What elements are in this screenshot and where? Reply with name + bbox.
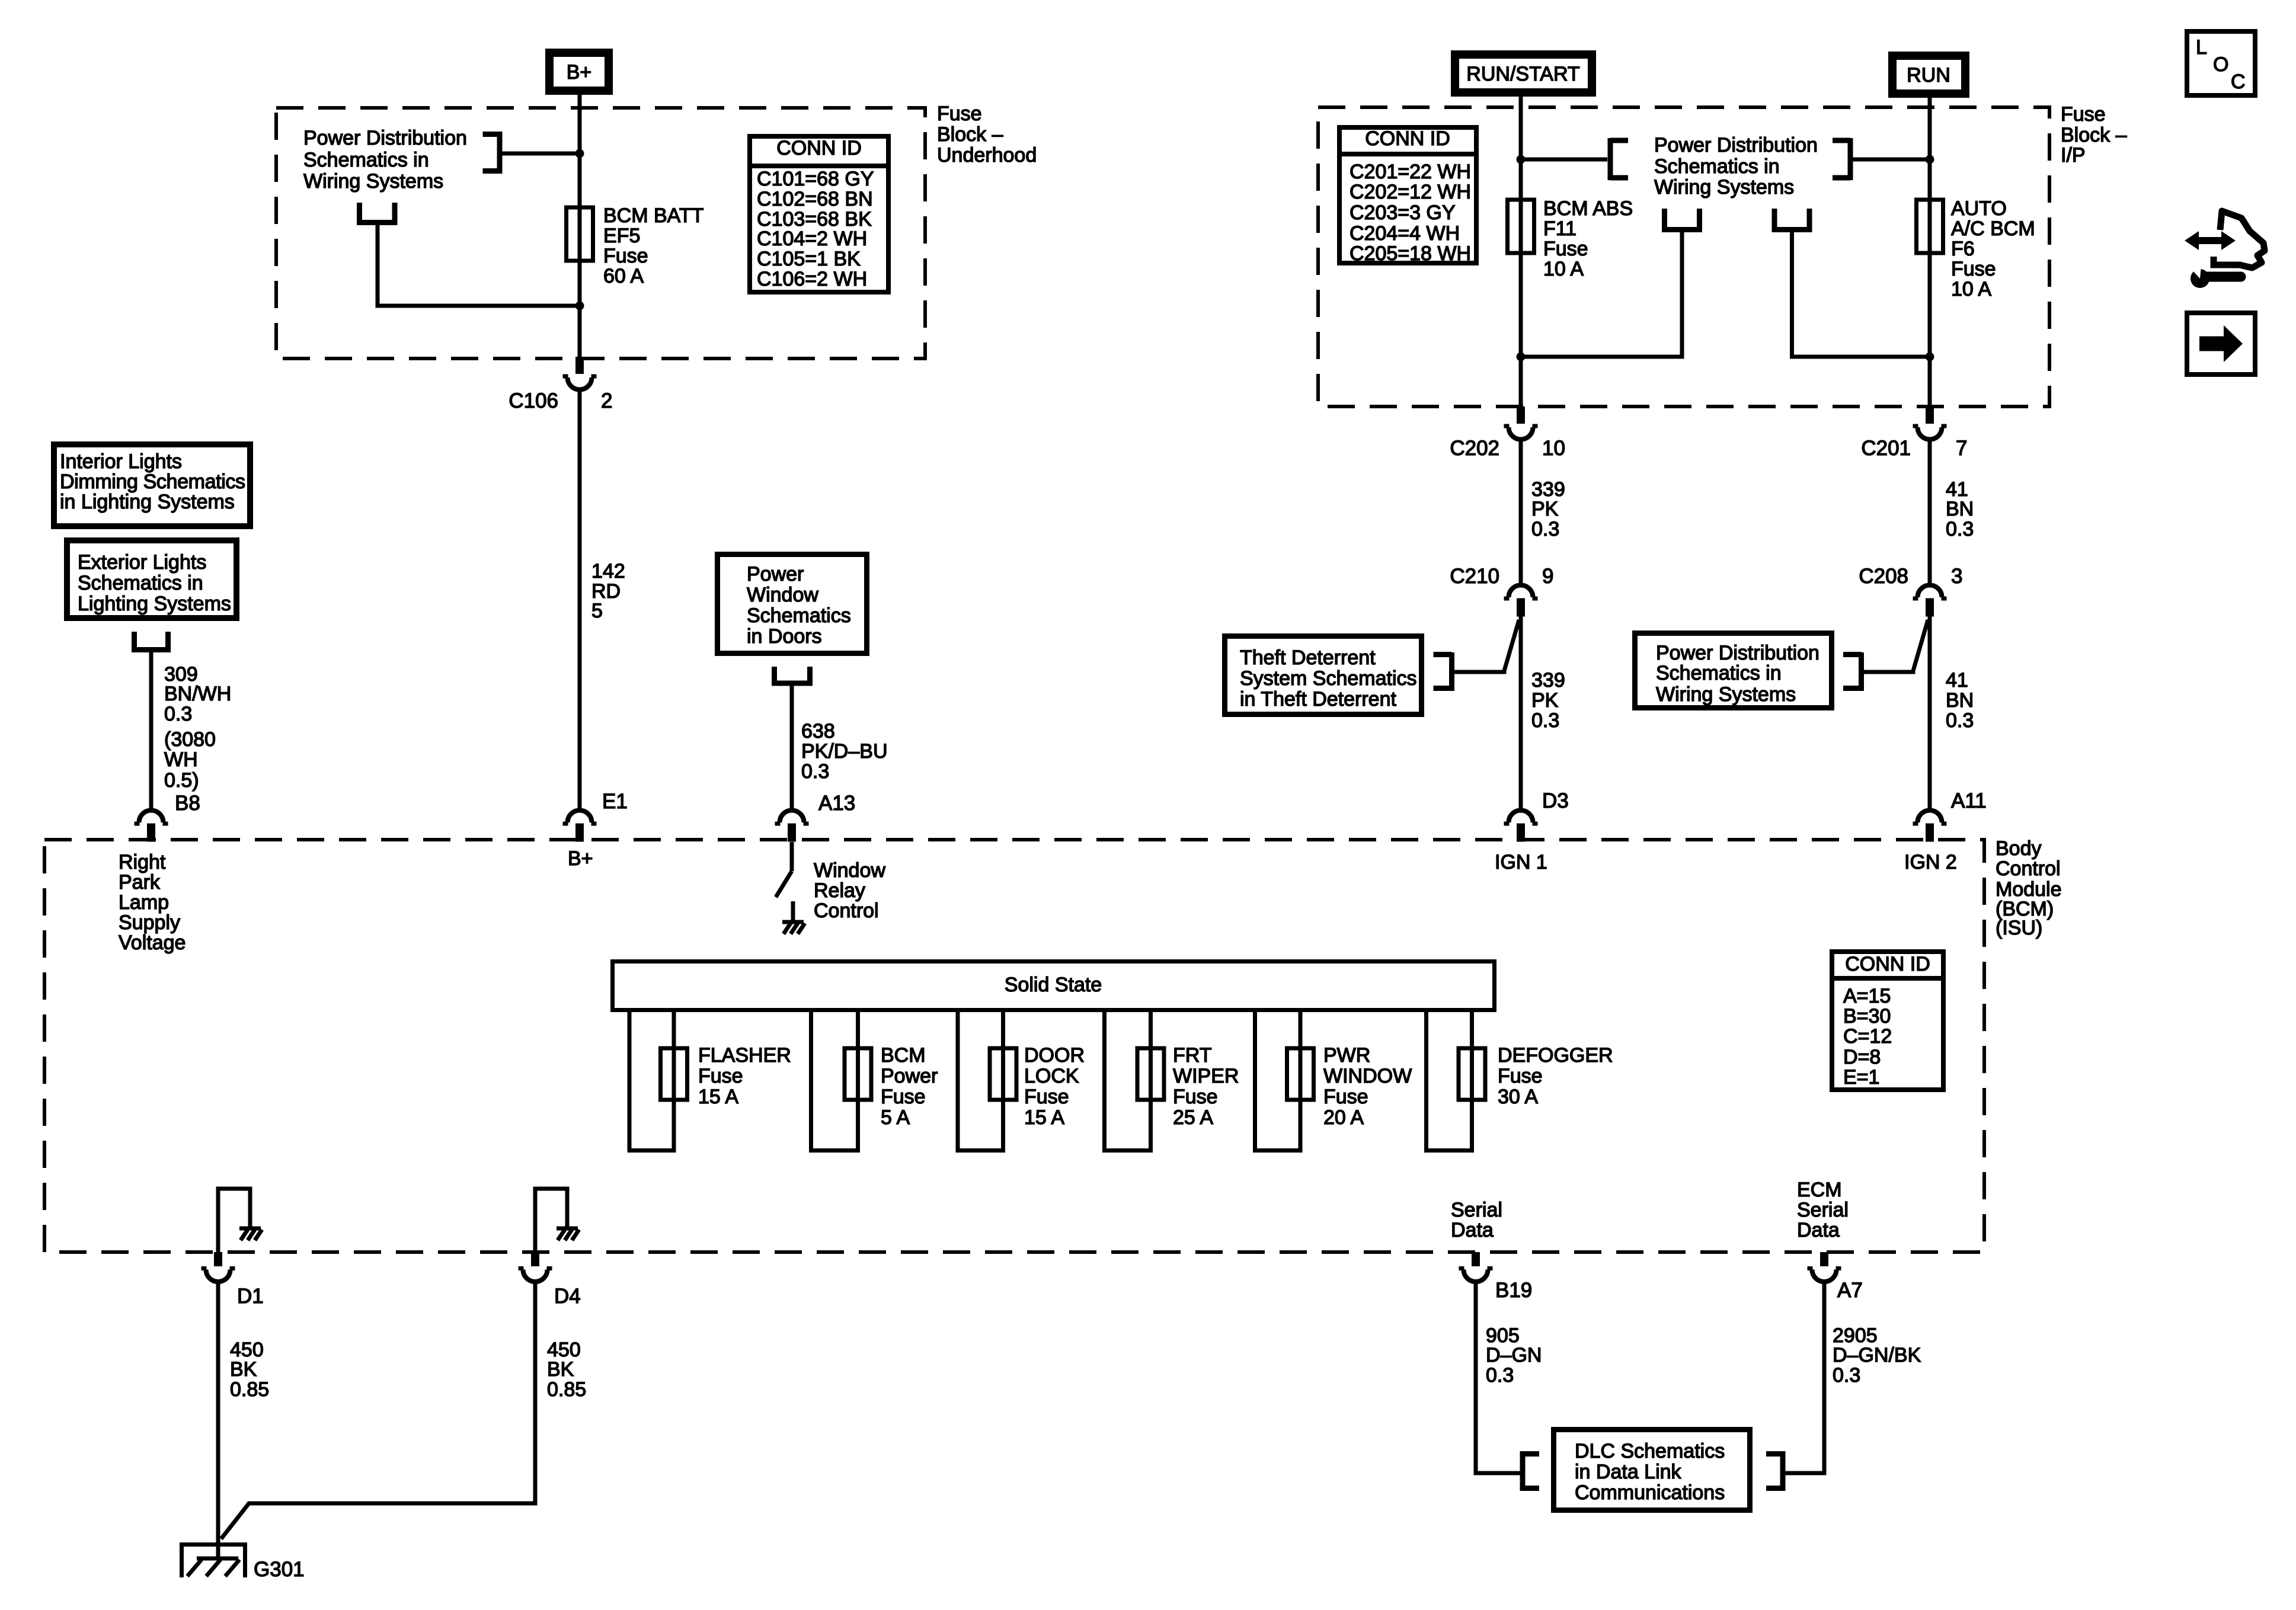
svg-text:Fuse: Fuse [1323, 1086, 1368, 1108]
svg-text:Fuse: Fuse [1173, 1086, 1218, 1108]
terminal RUN/START [1455, 55, 1592, 92]
wire RUN/START feed down through F11 to C202 [1519, 97, 1523, 406]
junction RUN tap [1926, 155, 1934, 164]
svg-text:D4: D4 [554, 1285, 581, 1308]
svg-text:15 A: 15 A [1024, 1106, 1064, 1129]
svg-text:10: 10 [1542, 437, 1565, 460]
svg-text:2: 2 [601, 389, 612, 412]
svg-text:B19: B19 [1495, 1279, 1532, 1302]
fuse F6 AUTO A/C BCM [1917, 200, 1943, 253]
svg-text:G301: G301 [254, 1558, 305, 1581]
label 41 BN 0.3 upper [1946, 478, 1974, 540]
svg-text:CONN ID: CONN ID [1845, 953, 1930, 975]
svg-text:0.3: 0.3 [1946, 518, 1974, 540]
wire 41 BN upper [1928, 440, 1932, 585]
svg-text:Fuse: Fuse [603, 245, 648, 267]
label 905 D-GN 0.3 [1486, 1324, 1542, 1387]
svg-text:ECM: ECM [1797, 1179, 1842, 1201]
svg-text:142: 142 [591, 560, 625, 582]
svg-text:Control: Control [814, 900, 879, 922]
svg-text:Block –: Block – [937, 123, 1003, 146]
label Fuse Block - Underhood [937, 103, 1037, 167]
svg-text:C104=2 WH: C104=2 WH [757, 228, 867, 250]
wire 2905 D-GN/BK to DLC [1785, 1282, 1824, 1473]
svg-text:AUTO: AUTO [1951, 197, 2007, 220]
svg-text:D=8: D=8 [1843, 1046, 1881, 1068]
internal ground hook D1 [218, 1189, 262, 1252]
wire 450 BK from D1 to G301 [216, 1282, 220, 1557]
reference bracket left of DLC box [1523, 1451, 1539, 1491]
svg-text:C101=68 GY: C101=68 GY [757, 168, 874, 190]
off-page bracket (right, below I/P label) [1772, 209, 1812, 230]
svg-text:Schematics: Schematics [747, 604, 851, 627]
svg-text:A=15: A=15 [1843, 985, 1891, 1007]
fuse F11 BCM ABS [1508, 200, 1534, 253]
svg-text:0.3: 0.3 [1833, 1364, 1860, 1387]
svg-text:3: 3 [1951, 565, 1962, 588]
svg-text:WIPER: WIPER [1173, 1065, 1239, 1087]
connector C210 pin 9 [1450, 565, 1553, 617]
svg-text:9: 9 [1542, 565, 1553, 588]
svg-text:7: 7 [1956, 437, 1967, 460]
wire bracket to RUN wire [1852, 158, 1930, 162]
connector A11 [1913, 789, 1987, 842]
svg-text:FLASHER: FLASHER [698, 1044, 791, 1067]
connector A7 [1808, 1252, 1863, 1302]
svg-text:DLC Schematics: DLC Schematics [1575, 1440, 1725, 1462]
connector C202 pin 10 [1450, 406, 1565, 460]
svg-text:BN: BN [1946, 689, 1974, 712]
svg-text:638: 638 [801, 720, 835, 742]
off-page bracket (left, below I/P label) [1662, 209, 1702, 230]
icon forward arrow [2187, 313, 2255, 375]
svg-text:C201: C201 [1861, 437, 1911, 460]
svg-text:25 A: 25 A [1173, 1106, 1213, 1129]
wire branch to power distribution bracket [1863, 620, 1928, 672]
internal ground hook D4 [535, 1189, 579, 1252]
svg-text:0.3: 0.3 [801, 760, 829, 783]
svg-text:BCM: BCM [881, 1044, 926, 1067]
svg-text:F11: F11 [1543, 217, 1576, 240]
wire RUN feed down through F6 to C201 [1928, 98, 1932, 406]
svg-text:Schematics in: Schematics in [78, 572, 203, 594]
svg-text:0.85: 0.85 [230, 1378, 269, 1401]
label 2905 D-GN/BK 0.3 [1833, 1324, 1921, 1387]
connector D3 [1504, 789, 1569, 842]
svg-text:O: O [2213, 53, 2228, 76]
svg-text:Lighting Systems: Lighting Systems [78, 593, 231, 615]
svg-text:DOOR: DOOR [1024, 1044, 1085, 1067]
pin label Window Relay Control [814, 859, 885, 922]
terminal RUN [1892, 56, 1965, 94]
svg-text:C105=1 BK: C105=1 BK [757, 248, 861, 270]
svg-text:C102=68 BN: C102=68 BN [757, 188, 873, 210]
svg-text:Data: Data [1451, 1219, 1494, 1241]
wire tap to reference bracket [501, 152, 580, 156]
svg-text:in Theft Deterrent: in Theft Deterrent [1240, 688, 1397, 710]
svg-text:Park: Park [119, 871, 161, 894]
connector B8 [135, 792, 200, 842]
wire 638 PK/D-BU [790, 686, 794, 809]
wire 905 D-GN to DLC [1476, 1282, 1520, 1473]
svg-text:60 A: 60 A [603, 265, 644, 287]
switch contact stub and ground [782, 901, 805, 934]
svg-text:C106: C106 [509, 389, 558, 412]
svg-text:CONN ID: CONN ID [1365, 127, 1450, 150]
wire 309 BN/WH [149, 651, 154, 809]
label Fuse Block - I/P [2061, 103, 2127, 167]
wire tap to reference bracket (left) [1521, 158, 1607, 162]
fuse unit FLASHER [629, 1012, 791, 1151]
junction F11 output [1517, 353, 1526, 361]
junction fuse output [575, 302, 584, 311]
svg-text:5 A: 5 A [881, 1106, 910, 1129]
junction B+ tap [575, 149, 584, 158]
label box Theft Deterrent System Schematics in Theft Deterrent [1225, 636, 1422, 715]
svg-text:A/C BCM: A/C BCM [1951, 217, 2035, 240]
svg-text:C210: C210 [1450, 565, 1499, 588]
svg-text:Relay: Relay [814, 879, 865, 902]
fuse unit DOOR LOCK [958, 1012, 1085, 1151]
reference bracket right of Power Distribution label [1833, 138, 1850, 180]
svg-text:PK: PK [1531, 689, 1559, 712]
svg-text:RUN/START: RUN/START [1466, 63, 1579, 85]
svg-text:Fuse: Fuse [1024, 1086, 1069, 1108]
svg-text:Right: Right [119, 851, 166, 873]
svg-text:Schematics in: Schematics in [303, 149, 429, 171]
svg-text:PK/D–BU: PK/D–BU [801, 740, 888, 763]
wire 450 BK from D4 to G301 [221, 1282, 535, 1539]
svg-text:B8: B8 [175, 792, 200, 815]
label box Interior Lights Dimming Schematics in Lighting Systems [54, 444, 250, 526]
svg-text:LOCK: LOCK [1024, 1065, 1079, 1087]
off-page bracket below Exterior Lights box [132, 632, 171, 650]
svg-text:15 A: 15 A [698, 1086, 738, 1108]
svg-text:in Doors: in Doors [747, 625, 822, 648]
reference bracket to Power Distribution label [483, 132, 500, 174]
fuse block I/P dashed box [1318, 107, 2049, 406]
svg-text:Control: Control [1996, 857, 2061, 880]
wire bracket to F6 output [1792, 232, 1926, 357]
svg-text:DEFOGGER: DEFOGGER [1498, 1044, 1613, 1067]
svg-text:B=30: B=30 [1843, 1005, 1891, 1028]
wire bracket to fuse output [378, 222, 575, 306]
svg-text:Power: Power [747, 563, 804, 585]
svg-text:Schematics in: Schematics in [1654, 155, 1780, 178]
wire 339 PK upper [1519, 440, 1523, 585]
svg-text:CONN ID: CONN ID [776, 137, 862, 159]
connector A13 [775, 792, 856, 842]
solid state bar [613, 962, 1495, 1010]
terminal B+ [549, 53, 609, 91]
svg-text:C106=2 WH: C106=2 WH [757, 268, 867, 290]
svg-text:Window: Window [814, 859, 885, 882]
connector C201 pin 7 [1861, 406, 1967, 460]
svg-text:D–GN: D–GN [1486, 1344, 1542, 1366]
svg-text:WINDOW: WINDOW [1323, 1065, 1412, 1087]
label 339 PK 0.3 upper [1531, 478, 1565, 540]
connector D1 [202, 1252, 264, 1308]
CONN ID table underhood [750, 136, 888, 292]
label Power Distribution Schematics in Wiring Systems (underhood) [303, 127, 467, 193]
fuse unit PWR WINDOW [1255, 1012, 1412, 1151]
svg-text:30 A: 30 A [1498, 1086, 1538, 1108]
reference bracket right of Theft Deterrent box [1434, 652, 1452, 691]
svg-text:Solid State: Solid State [1005, 974, 1102, 996]
svg-text:Fuse: Fuse [1543, 238, 1588, 260]
fuse unit BCM Power [811, 1012, 938, 1151]
svg-text:Body: Body [1996, 837, 2042, 860]
svg-text:A11: A11 [1951, 789, 1987, 812]
wire B+ feed down through EF5 to C106 [578, 95, 582, 357]
ground G301 [182, 1545, 245, 1578]
svg-text:F6: F6 [1951, 238, 1975, 260]
svg-text:5: 5 [591, 600, 603, 622]
fuse unit FRT WIPER [1105, 1012, 1239, 1151]
svg-text:Exterior Lights: Exterior Lights [78, 551, 206, 574]
svg-text:D1: D1 [237, 1285, 264, 1308]
svg-text:Voltage: Voltage [119, 932, 186, 954]
label box Exterior Lights Schematics in Lighting Systems [67, 540, 236, 618]
svg-text:C=12: C=12 [1843, 1025, 1892, 1048]
label 638 PK/D-BU 0.3 [801, 720, 888, 783]
label Power Distribution Schematics in Wiring Systems (I/P) [1654, 134, 1818, 199]
label 339 PK 0.3 lower [1531, 669, 1565, 732]
svg-text:Dimming Schematics: Dimming Schematics [60, 470, 245, 493]
svg-text:0.3: 0.3 [1486, 1364, 1514, 1387]
fuse block underhood dashed box [276, 108, 925, 359]
svg-text:Supply: Supply [119, 911, 180, 934]
icon LOC [2187, 31, 2255, 95]
svg-text:C: C [2231, 71, 2246, 93]
svg-text:D3: D3 [1542, 789, 1569, 812]
wire 142 RD [578, 390, 582, 809]
svg-text:10 A: 10 A [1951, 278, 1991, 300]
svg-text:Fuse: Fuse [937, 103, 982, 125]
label 142 RD 5 [591, 560, 625, 622]
svg-text:Window: Window [747, 584, 818, 606]
svg-text:IGN 2: IGN 2 [1904, 851, 1957, 873]
window relay switch [776, 842, 792, 897]
svg-text:C202: C202 [1450, 437, 1499, 460]
svg-text:Lamp: Lamp [119, 891, 169, 914]
svg-text:B+: B+ [567, 61, 592, 84]
svg-text:C202=12 WH: C202=12 WH [1350, 181, 1471, 203]
svg-text:I/P: I/P [2061, 144, 2086, 167]
svg-text:Data: Data [1797, 1219, 1840, 1241]
junction F6 output [1926, 353, 1934, 361]
off-page bracket below label (underhood) [357, 203, 398, 223]
svg-text:PWR: PWR [1323, 1044, 1370, 1067]
svg-text:Wiring Systems: Wiring Systems [1656, 683, 1796, 706]
svg-text:D–GN/BK: D–GN/BK [1833, 1344, 1921, 1366]
svg-text:Theft Deterrent: Theft Deterrent [1240, 646, 1376, 669]
body control module dashed box [44, 840, 1984, 1252]
svg-text:(ISU): (ISU) [1996, 917, 2042, 939]
junction RUN/START tap [1517, 155, 1526, 164]
svg-text:Block –: Block – [2061, 124, 2127, 146]
svg-text:Interior Lights: Interior Lights [60, 450, 182, 473]
svg-text:C204=4 WH: C204=4 WH [1350, 222, 1460, 245]
svg-text:E1: E1 [602, 790, 628, 813]
CONN ID table I/P [1339, 127, 1476, 265]
connector B19 [1459, 1252, 1533, 1302]
svg-text:41: 41 [1946, 669, 1968, 692]
svg-text:0.85: 0.85 [547, 1378, 586, 1401]
svg-text:C208: C208 [1859, 565, 1908, 588]
svg-text:Serial: Serial [1797, 1199, 1849, 1221]
label 450 BK 0.85 (D1) [230, 1339, 269, 1401]
svg-text:C205=18 WH: C205=18 WH [1350, 242, 1471, 265]
label Body Control Module (BCM) (ISU) [1996, 837, 2062, 939]
connector D4 [519, 1252, 581, 1308]
pin label Right Park Lamp Supply Voltage [119, 851, 186, 954]
svg-text:PK: PK [1531, 498, 1559, 520]
label box Power Distribution Schematics in Wiring Systems (boxed) [1635, 633, 1832, 708]
off-page bracket below Power Window box [772, 667, 813, 683]
svg-text:Power Distribution: Power Distribution [1656, 642, 1819, 664]
svg-text:Communications: Communications [1575, 1481, 1725, 1504]
reference bracket right of Power Distribution box [1843, 652, 1862, 691]
svg-text:20 A: 20 A [1323, 1106, 1364, 1129]
icon service reference (double arrow, outline, wrench) [2185, 211, 2265, 288]
svg-text:A7: A7 [1837, 1279, 1863, 1302]
svg-text:L: L [2196, 36, 2207, 59]
svg-text:FRT: FRT [1173, 1044, 1211, 1067]
fuse unit DEFOGGER [1427, 1012, 1613, 1151]
svg-text:in Lighting Systems: in Lighting Systems [60, 491, 235, 513]
svg-text:IGN 1: IGN 1 [1495, 851, 1547, 873]
connector C208 pin 3 [1859, 565, 1962, 617]
svg-text:339: 339 [1531, 669, 1565, 692]
label 309 BN/WH 0.3 (3080 WH 0.5) [164, 663, 231, 792]
svg-text:0.3: 0.3 [164, 703, 192, 725]
svg-text:BN/WH: BN/WH [164, 683, 231, 705]
svg-text:C203=3 GY: C203=3 GY [1350, 201, 1456, 224]
svg-text:Wiring Systems: Wiring Systems [1654, 176, 1794, 199]
wire 339 PK lower [1519, 616, 1523, 809]
svg-text:RUN: RUN [1907, 64, 1950, 87]
svg-text:0.3: 0.3 [1946, 709, 1974, 732]
svg-text:Fuse: Fuse [1951, 258, 1996, 280]
svg-text:Power Distribution: Power Distribution [303, 127, 467, 149]
wire branch to theft deterrent bracket [1454, 620, 1519, 672]
svg-text:Schematics in: Schematics in [1656, 662, 1782, 684]
svg-text:0.3: 0.3 [1531, 518, 1559, 540]
svg-text:Underhood: Underhood [937, 144, 1037, 167]
svg-text:C201=22 WH: C201=22 WH [1350, 161, 1471, 183]
svg-text:Fuse: Fuse [881, 1086, 926, 1108]
pin label Serial Data [1451, 1199, 1502, 1241]
svg-text:(3080: (3080 [164, 728, 216, 751]
svg-text:E=1: E=1 [1843, 1066, 1879, 1089]
label 450 BK 0.85 (D4) [547, 1339, 586, 1401]
svg-text:Power: Power [881, 1065, 938, 1087]
svg-text:Power Distribution: Power Distribution [1654, 134, 1818, 156]
label BCM ABS F11 Fuse 10 A [1543, 197, 1633, 280]
svg-text:Fuse: Fuse [2061, 103, 2106, 126]
connector C106 pin 2 [509, 357, 612, 412]
svg-text:WH: WH [164, 748, 198, 771]
wire bracket to F11 output [1525, 232, 1682, 357]
svg-text:B+: B+ [568, 847, 593, 870]
svg-text:A13: A13 [818, 792, 855, 815]
svg-text:0.5): 0.5) [164, 769, 199, 792]
svg-text:BCM ABS: BCM ABS [1543, 197, 1633, 220]
svg-text:10 A: 10 A [1543, 258, 1584, 280]
svg-text:System Schematics: System Schematics [1240, 667, 1417, 690]
reference bracket right of DLC box [1766, 1451, 1783, 1491]
svg-text:BK: BK [547, 1358, 574, 1381]
label AUTO A/C BCM F6 Fuse 10 A [1951, 197, 2035, 300]
svg-text:Serial: Serial [1451, 1199, 1502, 1221]
label 41 BN 0.3 lower [1946, 669, 1974, 732]
svg-text:BK: BK [230, 1358, 257, 1381]
fuse EF5 [567, 207, 593, 261]
svg-text:BCM BATT: BCM BATT [603, 204, 703, 227]
svg-text:BN: BN [1946, 498, 1974, 520]
svg-text:Fuse: Fuse [1498, 1065, 1543, 1087]
CONN ID table BCM [1832, 952, 1943, 1090]
svg-text:EF5: EF5 [603, 225, 640, 247]
svg-text:in Data Link: in Data Link [1575, 1461, 1682, 1483]
connector E1 [563, 790, 628, 842]
label box Power Window Schematics in Doors [718, 555, 867, 654]
svg-text:Wiring Systems: Wiring Systems [303, 170, 443, 193]
svg-text:Fuse: Fuse [698, 1065, 743, 1087]
label BCM BATT EF5 Fuse 60 A [603, 204, 703, 287]
reference bracket left of Power Distribution label [1610, 138, 1628, 180]
wire 41 BN lower [1928, 616, 1932, 809]
pin label ECM Serial Data [1797, 1179, 1849, 1241]
label box DLC Schematics in Data Link Communications [1554, 1430, 1750, 1510]
svg-text:0.3: 0.3 [1531, 709, 1559, 732]
